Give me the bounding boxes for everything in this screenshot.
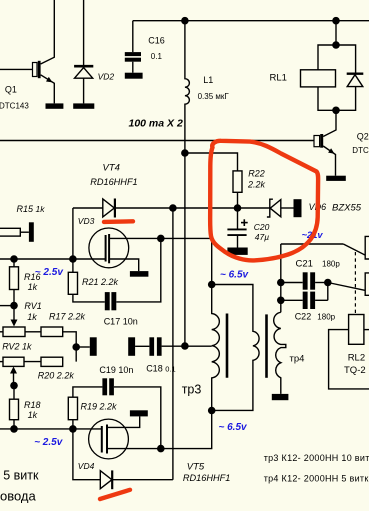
- node junction R22/C20/VD6: [234, 204, 242, 212]
- resistor RV2 body: [0, 361, 3, 363]
- diode across RL1: [347, 72, 364, 74]
- svg-text:R15 1k: R15 1k: [17, 204, 46, 214]
- wire VD6 row: [238, 207, 270, 209]
- ground (C16): [125, 73, 143, 79]
- svg-text:DTC14: DTC14: [352, 146, 369, 155]
- transformer tr3 secondary: [212, 285, 259, 411]
- node junction rail / R22 feed: [181, 149, 189, 157]
- red underline VD4: [100, 490, 130, 499]
- resistor R19: [72, 420, 74, 429]
- transistor Q1: [33, 63, 38, 77]
- wire relay branch vertical: [335, 21, 337, 45]
- svg-text:5 витк: 5 витк: [3, 469, 39, 483]
- wire RV1 wiper stub: [0, 305, 14, 307]
- svg-text:RL1: RL1: [270, 73, 287, 84]
- capacitor C21: [281, 282, 303, 284]
- svg-text:0.35 мкГ: 0.35 мкГ: [198, 92, 230, 101]
- transformer tr3 core: [226, 314, 229, 378]
- inductor L1 on supply rail: [185, 21, 190, 346]
- resistor R21: [72, 259, 74, 272]
- wire Q2 base (long horizontal): [0, 140, 314, 142]
- wire RL2 left loop: [329, 330, 369, 389]
- relay contact box 2: [365, 273, 369, 295]
- potentiometer RV1 wiper arrow: [13, 306, 15, 321]
- relay coil RL2: [349, 315, 364, 345]
- svg-text:RD16HHF1: RD16HHF1: [90, 177, 137, 187]
- svg-text:C20: C20: [254, 222, 270, 232]
- svg-text:C16: C16: [148, 35, 165, 45]
- svg-text:VT5: VT5: [187, 461, 205, 472]
- resistor R20: [41, 357, 63, 366]
- svg-text:овода: овода: [0, 488, 37, 503]
- wire VT4 drain to tr3: [161, 238, 212, 284]
- svg-text:C17 10n: C17 10n: [104, 316, 138, 326]
- ground (Q2 emitter): [326, 176, 346, 181]
- node junction VT4 drain: [157, 235, 165, 243]
- capacitor C17: [105, 292, 110, 310]
- svg-text:VD4: VD4: [78, 461, 95, 471]
- relay contact box 1: [365, 236, 369, 259]
- svg-text:1k: 1k: [27, 312, 37, 322]
- relay contact lever 1: [343, 244, 365, 255]
- svg-text:VD2: VD2: [98, 71, 115, 81]
- resistor R16: [13, 259, 15, 267]
- capacitor C18: [149, 337, 154, 356]
- MOSFET VT4: [89, 228, 129, 268]
- diode VD3: [103, 199, 115, 217]
- dashed link RL2: [354, 252, 356, 315]
- svg-text:тр4 К12- 2000НН 5 витк: тр4 К12- 2000НН 5 витк: [264, 474, 369, 484]
- svg-text:VD3: VD3: [78, 216, 95, 226]
- svg-text:~ 2.5v: ~ 2.5v: [35, 267, 65, 278]
- resistor R17: [41, 327, 63, 337]
- svg-text:L1: L1: [203, 75, 213, 85]
- wire R22 feed: [185, 153, 238, 171]
- wire gate bus VT4: [72, 208, 74, 259]
- wire VD3-VD4 rail: [172, 208, 174, 480]
- svg-text:VT4: VT4: [103, 162, 120, 173]
- svg-text:тр3: тр3: [182, 382, 202, 396]
- svg-text:C22: C22: [295, 312, 312, 322]
- wire RL1 top: [318, 45, 356, 73]
- zener diode VD6: [267, 199, 273, 217]
- node junction VD3 rail: [169, 204, 177, 212]
- transformer tr4 winding: [274, 312, 286, 394]
- MOSFET VT5: [89, 419, 129, 459]
- svg-text:1k: 1k: [28, 410, 38, 420]
- ground (C20): [227, 248, 247, 255]
- svg-text:R20 2.2k: R20 2.2k: [38, 371, 75, 381]
- capacitor C19: [102, 378, 107, 395]
- wire right rail top: [280, 244, 282, 312]
- relay coil RL1: [301, 70, 336, 87]
- wire RL1 bottom: [318, 87, 356, 111]
- svg-text:Q1: Q1: [5, 84, 17, 94]
- svg-text:R21 2.2k: R21 2.2k: [82, 277, 119, 287]
- svg-text:RD16HHF1: RD16HHF1: [183, 473, 230, 483]
- potentiometer RV2 wiper arrow: [10, 367, 17, 374]
- ground (VD2): [73, 103, 94, 108]
- terminal bar left: [90, 337, 97, 356]
- wire VD2 top vertical: [83, 0, 85, 65]
- svg-text:~ 2.5v: ~ 2.5v: [34, 437, 64, 448]
- svg-text:RV1: RV1: [24, 301, 41, 311]
- svg-text:1k: 1k: [28, 282, 38, 292]
- wire gate row VT4: [0, 258, 106, 260]
- svg-text:0.1: 0.1: [151, 52, 163, 61]
- capacitor C16: [132, 21, 134, 52]
- wire gate row VT5: [0, 428, 102, 430]
- wire VT5 drain to tr3: [161, 411, 212, 449]
- node junction rail top: [181, 17, 189, 25]
- wire Q1 collector vertical: [41, 0, 55, 64]
- svg-text:~ 6.5v: ~ 6.5v: [220, 270, 250, 281]
- svg-text:Q2: Q2: [357, 132, 369, 142]
- capacitor C20: [237, 208, 239, 229]
- svg-text:R22: R22: [248, 169, 265, 179]
- resistor R15: [0, 228, 20, 236]
- svg-text:R17 2.2k: R17 2.2k: [49, 311, 86, 321]
- wire Q2 collector: [323, 110, 336, 136]
- red underline VD3: [104, 219, 133, 224]
- capacitor C22: [281, 299, 303, 301]
- ground (VT4 source): [130, 271, 149, 277]
- terminal bar right: [128, 337, 135, 356]
- wire RL2 right stub: [364, 329, 369, 331]
- ground (Q1 emitter): [46, 103, 64, 108]
- node junction VT5 drain: [157, 445, 165, 453]
- diode VD2: [74, 65, 93, 68]
- ground (VD6 side bar): [294, 199, 302, 217]
- wire top supply rail: [133, 20, 369, 22]
- wire Q1 base: [0, 68, 33, 70]
- svg-text:DTC143: DTC143: [0, 101, 29, 110]
- svg-text:R19 2.2k: R19 2.2k: [81, 401, 118, 411]
- svg-text:C19 10n: C19 10n: [99, 365, 133, 375]
- wire to terminal bar: [76, 346, 90, 348]
- svg-text:RL2: RL2: [348, 353, 365, 364]
- transformer tr3 primary: [212, 285, 220, 411]
- svg-text:100 ma X 2: 100 ma X 2: [129, 118, 183, 130]
- svg-text:TQ-2: TQ-2: [344, 365, 366, 376]
- resistor R22: [233, 171, 242, 192]
- svg-text:R18: R18: [24, 400, 41, 410]
- svg-text:RV2 1k: RV2 1k: [2, 342, 32, 352]
- node junction C18 feed: [72, 343, 80, 351]
- svg-text:C18 0.1: C18 0.1: [146, 364, 175, 374]
- svg-text:180р: 180р: [322, 259, 340, 268]
- svg-text:тр4: тр4: [290, 353, 305, 364]
- transformer tr4 core: [265, 314, 268, 377]
- resistor R18: [13, 386, 15, 400]
- relay contact lever 2: [328, 283, 366, 291]
- diode VD4: [73, 429, 100, 480]
- svg-text:180р: 180р: [317, 313, 335, 322]
- wire VD3 row: [73, 207, 103, 209]
- svg-text:BZX55: BZX55: [332, 202, 362, 213]
- svg-text:C21: C21: [296, 259, 313, 270]
- node junction rail / transformer tap: [181, 342, 189, 350]
- wire transformer tap: [185, 345, 212, 347]
- svg-text:тр3 К12- 2000НН 10 витк: тр3 К12- 2000НН 10 витк: [264, 453, 369, 463]
- svg-text:47µ: 47µ: [255, 232, 269, 242]
- ground (VT5 source): [130, 410, 148, 416]
- svg-text:~ 6.5v: ~ 6.5v: [219, 422, 249, 433]
- resistor RV1 body: [0, 331, 3, 333]
- svg-text:2.2k: 2.2k: [247, 180, 266, 190]
- ground (tr4): [272, 394, 289, 400]
- red ink circle around R22/C20/VD6: [100, 141, 318, 499]
- transistor Q2: [314, 136, 320, 147]
